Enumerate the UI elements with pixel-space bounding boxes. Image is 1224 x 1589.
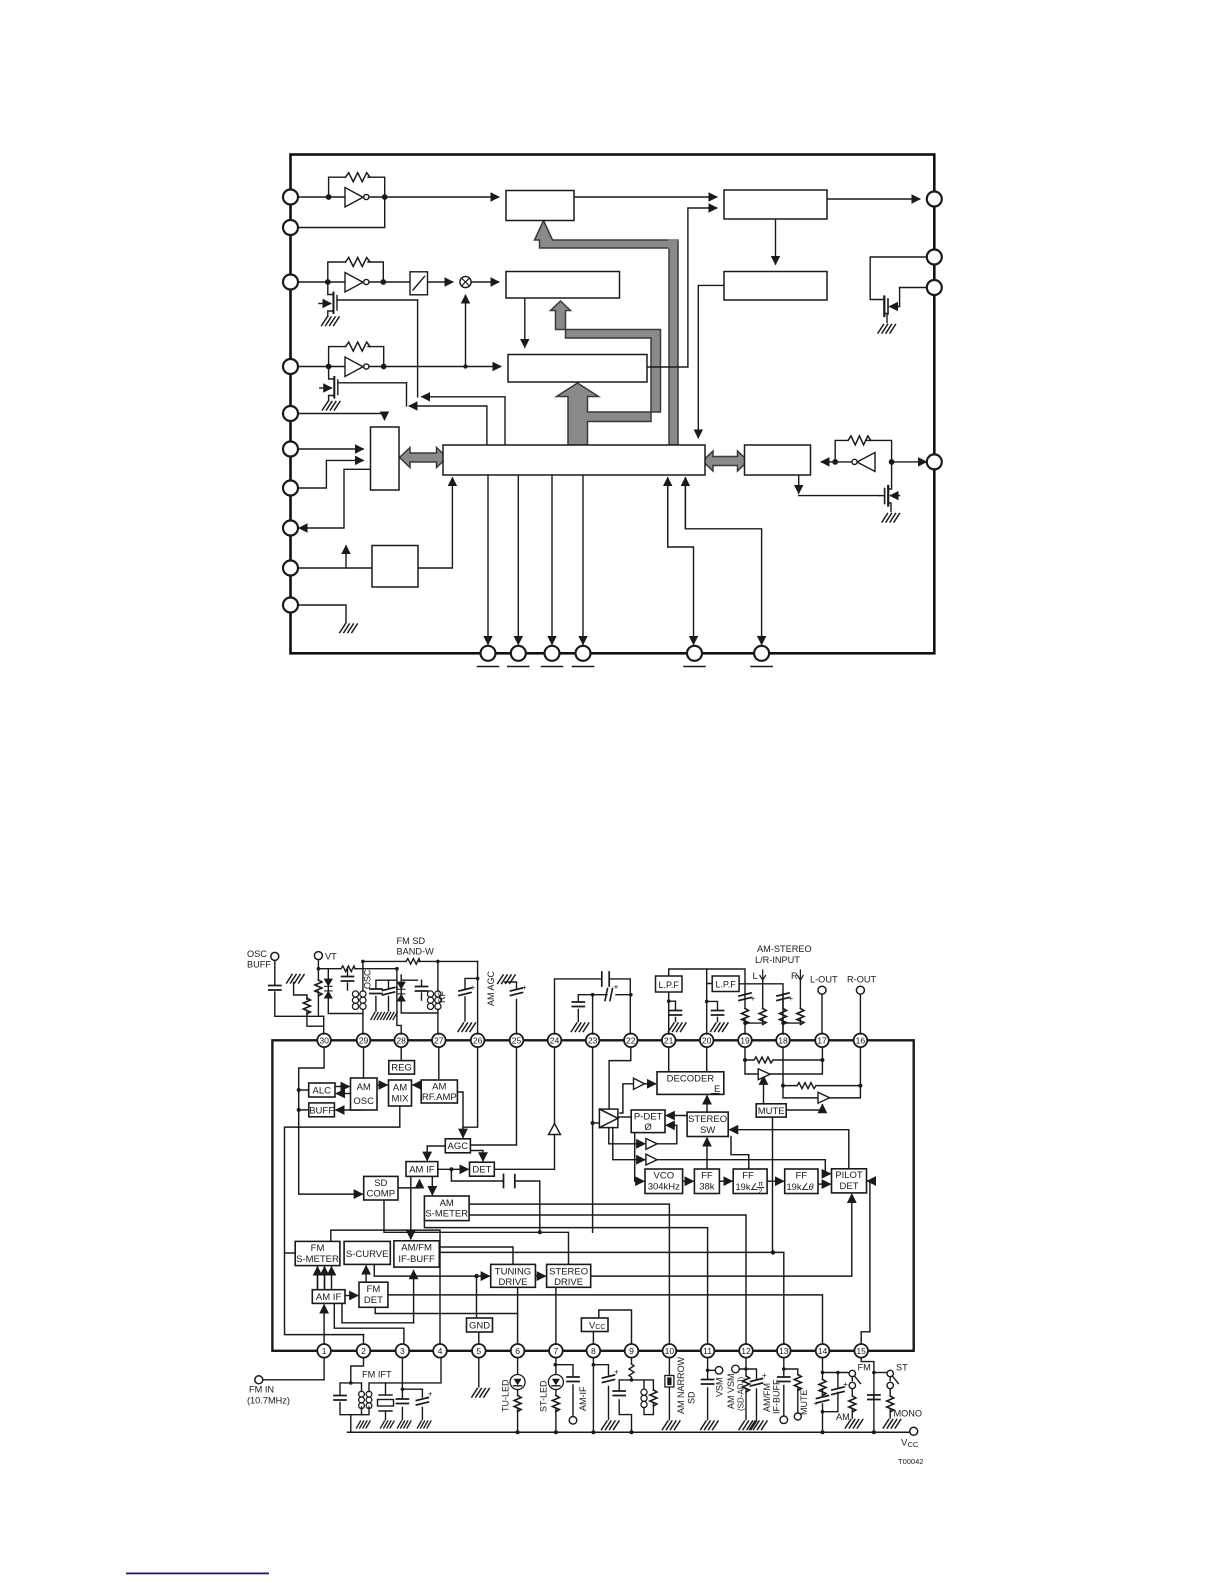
wire: box4 to box5 xyxy=(524,298,526,347)
wire: STEREO DRIVE to PILOT DET xyxy=(591,1195,852,1277)
wire: T1 input xyxy=(620,1084,634,1113)
pin13 cap xyxy=(778,1377,790,1382)
wire: pin29 to AM OSC xyxy=(363,1047,365,1078)
svg-text:38k: 38k xyxy=(699,1182,715,1193)
top pin row circles xyxy=(317,1034,867,1048)
ground for Q5 xyxy=(882,514,900,523)
wire: pin4 to tall box xyxy=(298,414,385,420)
AM-IF cap xyxy=(567,1377,579,1382)
block box2 xyxy=(724,190,827,219)
svg-text:IF-BUFF: IF-BUFF xyxy=(772,1379,782,1414)
pin9 tank xyxy=(619,1358,653,1433)
wire: box1 to box2 xyxy=(574,196,717,198)
pin12 ground xyxy=(739,1421,757,1430)
wire: tall box to pin7 xyxy=(300,469,371,528)
cap under n+ xyxy=(578,995,592,1022)
svg-text:25: 25 xyxy=(512,1036,522,1046)
wire: AGC to AM IF xyxy=(427,1146,445,1160)
svg-text:11: 11 xyxy=(703,1346,712,1356)
electrolytic cap pin18 xyxy=(777,993,789,1001)
block box4 xyxy=(506,272,620,299)
pin9 resistor xyxy=(629,1364,634,1377)
square block xyxy=(372,546,418,588)
pin9 tank coil xyxy=(641,1389,647,1408)
svg-text:+: + xyxy=(522,983,527,992)
wire: coupling cap line xyxy=(451,1169,539,1232)
wire: phase box to amp T3 xyxy=(613,1128,645,1160)
wire: STEREO SW to P-DET xyxy=(667,1115,688,1117)
tank2 cap branch xyxy=(421,980,423,1000)
svg-text:AM IF: AM IF xyxy=(409,1164,435,1175)
wire: right mosfet4 to pins xyxy=(870,257,934,295)
R input xyxy=(783,981,800,1024)
VT branch xyxy=(318,960,323,1017)
dots above pin row xyxy=(317,960,785,1025)
wire: AM IF low to FM DET xyxy=(345,1295,358,1297)
svg-text:OSC: OSC xyxy=(247,949,267,959)
wires: AM IF low to FM S-METER xyxy=(318,1267,332,1289)
wire: pin22 to phase box xyxy=(609,1047,631,1109)
wire: IF-BUFF to pin13 xyxy=(439,1252,784,1344)
L input arrow xyxy=(760,970,766,980)
bottom pin numbers xyxy=(322,1346,866,1356)
LPF1 cap xyxy=(670,1011,682,1016)
wire: box2 to box3 xyxy=(775,219,777,264)
svg-text:AM NARROW: AM NARROW xyxy=(676,1356,686,1414)
svg-text:AM IF: AM IF xyxy=(316,1292,342,1303)
svg-text:+: + xyxy=(762,1371,767,1380)
wire: FM DET bottom line xyxy=(375,1307,517,1313)
wire: pin15 to PILOT DET xyxy=(861,1181,870,1344)
wire: pin20 to DECODER xyxy=(706,1047,708,1072)
wire: box5 to box2 xyxy=(647,208,717,367)
wire: pin8 to Vcc box xyxy=(592,1332,594,1345)
pin12 cap ground xyxy=(750,1421,768,1430)
wire: pin30 to BUFF and SD COMP xyxy=(299,1047,362,1194)
pin25 branch: cap and ground xyxy=(505,982,517,1034)
wire: pin18 node xyxy=(783,1047,817,1098)
svg-text:STEREO: STEREO xyxy=(688,1114,727,1125)
ground at pin9 wire xyxy=(340,624,358,633)
svg-text:MUTE: MUTE xyxy=(799,1390,809,1416)
wire: T4 out to pin17 xyxy=(770,1047,822,1074)
pin5 ground stem xyxy=(478,1358,480,1387)
pin10 crystal xyxy=(665,1376,674,1388)
mosfet Q5 xyxy=(879,462,900,512)
left pin circles xyxy=(283,190,298,613)
wire: MUTE top xyxy=(763,1077,765,1104)
pin6 TU-LED chain xyxy=(517,1358,519,1433)
svg-text:AM/FM: AM/FM xyxy=(401,1243,432,1254)
LPF2 wires xyxy=(707,969,713,1034)
svg-text:AM: AM xyxy=(440,1198,454,1209)
wire: AM OSC to BUFF xyxy=(336,1109,364,1111)
svg-text:28: 28 xyxy=(396,1036,406,1046)
pin14 resistor xyxy=(819,1380,826,1396)
svg-text:VSM: VSM xyxy=(715,1377,725,1397)
svg-text:+: + xyxy=(614,982,619,992)
ground above OSC BUFF resistor xyxy=(287,975,305,984)
wire: VCO to FF38k xyxy=(683,1180,693,1182)
svg-text:19k: 19k xyxy=(736,1182,751,1192)
svg-text:10: 10 xyxy=(665,1346,675,1356)
pin26 electrolytic cap xyxy=(459,988,471,996)
amp T3 xyxy=(646,1154,657,1165)
svg-text:L/R-INPUT: L/R-INPUT xyxy=(755,955,800,965)
svg-text:S-METER: S-METER xyxy=(425,1208,468,1219)
svg-text:T00042: T00042 xyxy=(898,1457,923,1466)
svg-text:P-DET: P-DET xyxy=(634,1112,663,1123)
wire: pin27 to AM RF.AMP xyxy=(438,1047,440,1080)
svg-text:R: R xyxy=(791,971,798,981)
pin8 ground xyxy=(602,1421,620,1430)
wire: bus to bottom pins xyxy=(487,475,489,644)
svg-text:304kHz: 304kHz xyxy=(648,1182,680,1193)
VSM terminal xyxy=(715,1367,723,1375)
svg-text:FM: FM xyxy=(311,1243,325,1254)
svg-text:DRIVE: DRIVE xyxy=(554,1277,583,1288)
svg-text:22: 22 xyxy=(626,1036,636,1046)
svg-text:26: 26 xyxy=(473,1036,483,1046)
svg-text:L.P.F: L.P.F xyxy=(715,980,736,990)
wire: AM IF to IF-BUFF xyxy=(410,1176,412,1238)
svg-text:AGC: AGC xyxy=(448,1141,469,1152)
pin23 electrolytic to pin22 xyxy=(593,995,631,1034)
wire: T2 to P-DET xyxy=(657,1125,677,1144)
tank2 cap xyxy=(416,987,428,992)
IC border xyxy=(272,1040,913,1351)
ground under cap xyxy=(571,1023,589,1032)
VT wire right with resistor xyxy=(318,969,401,1034)
svg-text:FF: FF xyxy=(795,1171,807,1182)
wire: row2 path to limiter xyxy=(298,281,345,283)
capacitor on det line xyxy=(504,1175,515,1188)
pin9 tank cap xyxy=(613,1391,625,1396)
wire: pin5 to GND box xyxy=(478,1332,480,1344)
svg-text:TUNING: TUNING xyxy=(495,1266,531,1277)
inverter U4 with feedback xyxy=(833,436,894,472)
block box6 xyxy=(745,445,811,475)
wire: long line to pin11 xyxy=(424,1221,707,1345)
wire: mult to row3 node xyxy=(465,296,467,367)
grey double arrow left xyxy=(400,448,448,468)
svg-text:AM: AM xyxy=(432,1082,446,1093)
svg-text:19k: 19k xyxy=(787,1182,802,1192)
svg-text:20: 20 xyxy=(702,1036,712,1046)
svg-text:FF: FF xyxy=(742,1171,754,1182)
svg-text:RF: RF xyxy=(437,991,447,1003)
wire: IF-BUFF to TUNING DRIVE xyxy=(439,1247,513,1264)
resistor on band-w line xyxy=(406,959,420,965)
LPF1 wires xyxy=(669,969,745,1034)
svg-text:STEREO: STEREO xyxy=(549,1266,588,1277)
svg-text:12: 12 xyxy=(741,1346,751,1356)
wire: ALC left stub xyxy=(299,1089,309,1091)
resistor R-R feedback xyxy=(783,1083,860,1089)
wire: pin2 riser xyxy=(363,1335,365,1345)
svg-text:4: 4 xyxy=(438,1346,443,1356)
svg-text:SD: SD xyxy=(374,1178,387,1189)
L input xyxy=(745,981,763,1024)
svg-text:DRIVE: DRIVE xyxy=(498,1277,527,1288)
wire: pin23 vertical xyxy=(592,1047,594,1233)
grey bus arrow A: bus to box1 xyxy=(535,221,679,446)
wire: AM RF.AMP to AGC xyxy=(457,1092,463,1137)
ST switch xyxy=(887,1370,898,1388)
svg-text:PILOT: PILOT xyxy=(835,1170,863,1181)
wire: FF pi2 to FF theta xyxy=(767,1180,783,1182)
resistor R-L feedback xyxy=(745,1057,822,1063)
svg-text:3: 3 xyxy=(400,1346,405,1356)
amp T2 xyxy=(646,1139,657,1150)
wire: phase box to pin23 line xyxy=(593,1122,600,1124)
wire: AM IF low to pin3 xyxy=(334,1303,404,1344)
svg-text:AM/FM: AM/FM xyxy=(762,1383,772,1412)
wire: FM DET to pin14 xyxy=(388,1295,823,1344)
ground for Q4 xyxy=(878,325,896,334)
Vcc terminal xyxy=(910,1427,918,1435)
cap pin3 xyxy=(396,1399,408,1404)
ground for Q2 xyxy=(322,317,340,326)
svg-text:14: 14 xyxy=(818,1346,828,1356)
FM IN wire xyxy=(263,1358,324,1380)
top wire with band-w resistor xyxy=(363,960,478,962)
svg-text:MONO: MONO xyxy=(894,1409,923,1419)
pin28 caps group xyxy=(376,980,397,1011)
svg-text:AM: AM xyxy=(836,1412,850,1422)
wire: FF38k to STEREO SW xyxy=(706,1138,708,1169)
wire: AM RF.AMP to AM MIX xyxy=(413,1084,421,1086)
cap on pin15 line xyxy=(868,1395,880,1400)
wire: AM IF low to IF-BUFF riser xyxy=(342,1303,414,1322)
wires: top row signal path xyxy=(298,197,934,644)
svg-text:15: 15 xyxy=(856,1346,866,1356)
wire: DET to buffer to pin24 xyxy=(494,1047,554,1170)
pin13 chain xyxy=(784,1358,798,1417)
ST-LED diode xyxy=(548,1375,563,1390)
wire: AGC line Q to mosfet3 gate xyxy=(410,406,487,445)
wire: pin28 to REG xyxy=(400,1047,402,1061)
svg-text:FM: FM xyxy=(367,1284,381,1295)
FF 19k pi/2 label xyxy=(736,1179,764,1196)
svg-text:+: + xyxy=(843,1379,848,1389)
svg-text:1: 1 xyxy=(322,1346,327,1356)
svg-text:+: + xyxy=(751,994,756,1003)
pin10 crystal chain xyxy=(668,1358,670,1420)
pin10 ground xyxy=(662,1421,680,1430)
bottom supply rail xyxy=(348,1431,910,1433)
OSC BUFF branch xyxy=(275,960,324,1034)
electrolytic cap pin23-pin22 xyxy=(605,989,613,1001)
resistor pin18 xyxy=(780,1009,787,1025)
wire: pin1 to inverter U1 xyxy=(298,196,345,198)
svg-text:COMP: COMP xyxy=(367,1189,396,1200)
VT terminal xyxy=(314,952,322,960)
IFT transformer coils xyxy=(359,1391,372,1408)
ground pin26 cap xyxy=(458,1023,476,1032)
wire: square to bus xyxy=(418,478,452,568)
pin9 tank resistor xyxy=(650,1390,657,1406)
svg-text:OSC: OSC xyxy=(363,969,373,989)
svg-text:TU-LED: TU-LED xyxy=(501,1379,511,1412)
mosfet Q4 xyxy=(870,288,899,323)
svg-text:DET: DET xyxy=(364,1295,383,1306)
pin11 ground xyxy=(701,1421,719,1430)
svg-text:AM-STEREO: AM-STEREO xyxy=(757,944,812,954)
OSC BUFF cap xyxy=(269,986,281,991)
wire: AM IF to AM S-METER xyxy=(431,1176,433,1194)
wire: box6 to mosfet5 gate xyxy=(798,475,800,493)
svg-text:θ: θ xyxy=(809,1182,814,1192)
svg-text:21: 21 xyxy=(664,1036,674,1046)
svg-text:23: 23 xyxy=(588,1036,598,1046)
pin8 chain xyxy=(592,1358,594,1433)
L.P.F block 1 xyxy=(656,976,683,992)
resistor on OSC BUFF branch xyxy=(303,998,310,1014)
buffer triangle on pin24 line xyxy=(549,1124,561,1135)
right pin circles xyxy=(927,192,942,470)
svg-text:VCO: VCO xyxy=(654,1171,675,1182)
mosfet Q2 xyxy=(319,282,418,317)
wire: FM S-METER top to pin4 xyxy=(331,1230,440,1344)
svg-text:VT: VT xyxy=(325,952,337,962)
svg-text:DET: DET xyxy=(840,1181,859,1192)
tank2 varactors vertical xyxy=(401,975,438,1013)
top pin numbers xyxy=(319,1036,865,1046)
inverter U3 with feedback xyxy=(326,342,386,376)
pin13 test point xyxy=(780,1416,788,1424)
wire: box6 loop to right pin xyxy=(892,461,926,463)
LPF2 ground xyxy=(711,1023,729,1032)
block box3 xyxy=(724,272,827,301)
svg-text:27: 27 xyxy=(434,1036,444,1046)
resistor R input xyxy=(797,1009,804,1025)
wire: IF-BUFF bottom riser xyxy=(413,1271,415,1323)
ST switch chain xyxy=(889,1377,891,1419)
svg-text:19: 19 xyxy=(740,1036,750,1046)
wire: pin5 to tall box xyxy=(298,448,363,450)
labelled function blocks xyxy=(295,1061,866,1332)
tank1 coil pair xyxy=(352,991,366,1010)
bottom pin circles xyxy=(481,646,770,661)
TU-LED diode xyxy=(510,1375,525,1390)
wire: long line to pin10 xyxy=(469,1204,669,1344)
grey double arrow right xyxy=(703,451,749,471)
svg-text:MUTE: MUTE xyxy=(758,1106,785,1117)
wire: pin19 node xyxy=(745,1047,757,1074)
svg-text:+: + xyxy=(428,1390,433,1399)
svg-text:FM: FM xyxy=(858,1363,871,1373)
resistor on VT vertical xyxy=(315,980,322,996)
svg-text:30: 30 xyxy=(319,1036,329,1046)
svg-text:FM IN: FM IN xyxy=(249,1384,274,1394)
wire: TUNING to STEREO DRIVE xyxy=(535,1275,545,1277)
wire: pin26 join xyxy=(463,1047,478,1127)
wire: STEREO SW to DECODER xyxy=(706,1096,708,1112)
wire: pin7 to STEREO DRIVE xyxy=(555,1287,557,1344)
wire: pin21 to DECODER xyxy=(668,1047,670,1072)
wire: FM DET to S-CURVE xyxy=(365,1266,367,1282)
svg-text:8: 8 xyxy=(591,1346,596,1356)
wire: T1 to DECODER xyxy=(644,1083,655,1085)
wire: phase box to amp T2 xyxy=(609,1128,645,1144)
svg-text:ST-LED: ST-LED xyxy=(539,1380,549,1412)
AM-IF test point xyxy=(569,1417,577,1425)
tank cap pin2 xyxy=(334,1396,346,1401)
pin28 trim caps xyxy=(370,989,382,994)
wire: pin6 to TUNING DRIVE xyxy=(517,1287,519,1344)
svg-text:R-OUT: R-OUT xyxy=(847,975,876,985)
wire: T5 out to pin16 xyxy=(830,1047,861,1098)
R-OUT terminal xyxy=(856,986,864,994)
ground for Q3 xyxy=(322,402,340,411)
svg-text:9: 9 xyxy=(629,1346,634,1356)
svg-text:BUFF: BUFF xyxy=(247,960,271,970)
grey bus arrow B: bus to box5 and box4 xyxy=(551,301,661,445)
svg-text:S-CURVE: S-CURVE xyxy=(346,1249,389,1260)
FF 19k theta label xyxy=(787,1182,814,1192)
svg-text:Ø: Ø xyxy=(644,1122,652,1133)
grounds for pin28 caps xyxy=(371,1013,385,1020)
LPF1 ground xyxy=(669,1023,687,1032)
tank2 coil pair xyxy=(427,991,441,1010)
wire: FM S-METER left stub xyxy=(285,1252,296,1254)
svg-text:S-METER: S-METER xyxy=(296,1254,339,1265)
electrolytic under pin3 line xyxy=(421,1389,423,1419)
pin29 vertical through tank xyxy=(362,961,365,1034)
wire: SD COMP to AM IF xyxy=(398,1180,420,1188)
bottom pin row circles xyxy=(317,1344,868,1358)
wire: T3 to PILOT DET xyxy=(657,1160,830,1174)
svg-text:GND: GND xyxy=(469,1320,490,1331)
wire: STEREO DRIVE top xyxy=(384,1200,569,1264)
ground pin25 xyxy=(498,975,515,984)
limiter block xyxy=(410,272,428,295)
pin15 external xyxy=(861,1358,874,1433)
amp T1 xyxy=(634,1078,645,1089)
svg-text:AM: AM xyxy=(393,1083,407,1094)
pin13 resistor xyxy=(794,1375,801,1391)
varactor diode pair tank2 xyxy=(398,982,405,1001)
svg-text:+: + xyxy=(789,994,794,1003)
pin14 branch electrolytic xyxy=(832,1387,844,1395)
wire: AM OSC to AM MIX xyxy=(377,1084,387,1086)
R-OUT lead xyxy=(859,994,861,1034)
wire: row3 path to box5 xyxy=(298,366,345,368)
svg-text:ALC: ALC xyxy=(313,1085,332,1096)
svg-text:AM VSM: AM VSM xyxy=(726,1373,736,1409)
svg-text:6: 6 xyxy=(515,1346,520,1356)
pin12 chain xyxy=(740,1358,757,1420)
wire: line into TUNING DRIVE xyxy=(374,1264,489,1276)
svg-text:FM IFT: FM IFT xyxy=(362,1370,392,1380)
svg-text:SD: SD xyxy=(687,1391,697,1404)
grounds under FM IFT group xyxy=(357,1421,371,1428)
R input arrow xyxy=(798,970,804,980)
junction dots xyxy=(297,1058,863,1278)
svg-text:DECODER: DECODER xyxy=(667,1073,715,1084)
wire: FF38k to FF 19k pi2 xyxy=(719,1180,731,1182)
resistor on VT line xyxy=(341,966,355,972)
L-OUT lead xyxy=(821,994,823,1034)
ground pin5 xyxy=(472,1389,490,1398)
svg-text:16: 16 xyxy=(856,1036,866,1046)
varactor diode pair tank1 xyxy=(325,979,332,998)
svg-text:RF.AMP: RF.AMP xyxy=(422,1092,457,1103)
wire: pin9 to ground xyxy=(298,605,346,623)
wire: pin1 to AM IF low xyxy=(323,1305,325,1344)
external labels top xyxy=(247,936,876,985)
